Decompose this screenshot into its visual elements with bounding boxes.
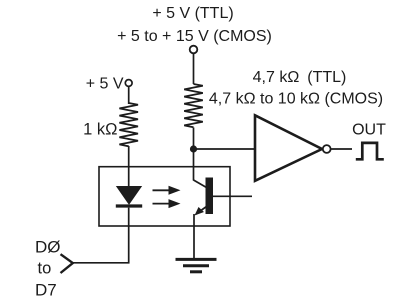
svg-text:OUT: OUT <box>352 122 386 139</box>
LED D1 cathode bar <box>116 204 142 207</box>
phototransistor Q1 emitter arrowhead <box>195 207 205 216</box>
wire buffer output to OUT <box>331 148 352 150</box>
wire emitter to ground <box>193 214 195 258</box>
svg-text:to: to <box>38 260 52 278</box>
phototransistor Q1 emitter lead <box>196 207 207 215</box>
optocoupler U1 package outline <box>99 167 230 226</box>
svg-text:1 kΩ: 1 kΩ <box>83 121 117 139</box>
wire VCC2 terminal to R2 <box>193 53 195 84</box>
resistor R1 1 kOhm <box>119 103 138 146</box>
phototransistor Q1 collector lead <box>194 180 207 188</box>
wire R2 to node A <box>193 128 195 150</box>
ground symbol <box>176 258 217 261</box>
terminal VCC2 (open circle) <box>190 46 198 54</box>
phototransistor Q1 base bar <box>206 178 214 215</box>
wire R1 to LED anode <box>128 146 130 187</box>
resistor R2 4,7 kOhm pull-up <box>184 84 203 127</box>
light arrow 1 <box>153 189 171 191</box>
svg-text:4,7 kΩ to 10 kΩ (CMOS): 4,7 kΩ to 10 kΩ (CMOS) <box>209 91 383 108</box>
wire node A to buffer input <box>194 148 256 150</box>
light arrow 2 <box>153 203 171 205</box>
svg-text:+ 5 V: + 5 V <box>86 76 124 93</box>
terminal VCC1 (open circle) <box>125 80 132 87</box>
svg-text:+ 5 V (TTL): + 5 V (TTL) <box>152 5 233 22</box>
inverter bubble <box>323 145 331 153</box>
wire LED cathode to data bus <box>73 208 129 263</box>
LED D1 (anode top, cathode bottom) <box>117 187 141 205</box>
wire node A down to phototransistor collector <box>193 149 195 181</box>
svg-text:D7: D7 <box>35 281 57 300</box>
wire VCC1 terminal to R1 <box>128 86 130 104</box>
buffer U2 triangle <box>255 115 322 181</box>
connector chevron D0-D7 <box>61 254 73 273</box>
phototransistor Q1 base lead (floating) <box>213 195 252 197</box>
node A junction dot <box>190 145 197 152</box>
svg-text:4,7 kΩ (TTL): 4,7 kΩ (TTL) <box>253 69 347 86</box>
svg-text:+ 5 to + 15 V (CMOS): + 5 to + 15 V (CMOS) <box>117 28 272 45</box>
svg-text:DØ: DØ <box>35 238 61 257</box>
pulse waveform symbol <box>356 143 384 159</box>
